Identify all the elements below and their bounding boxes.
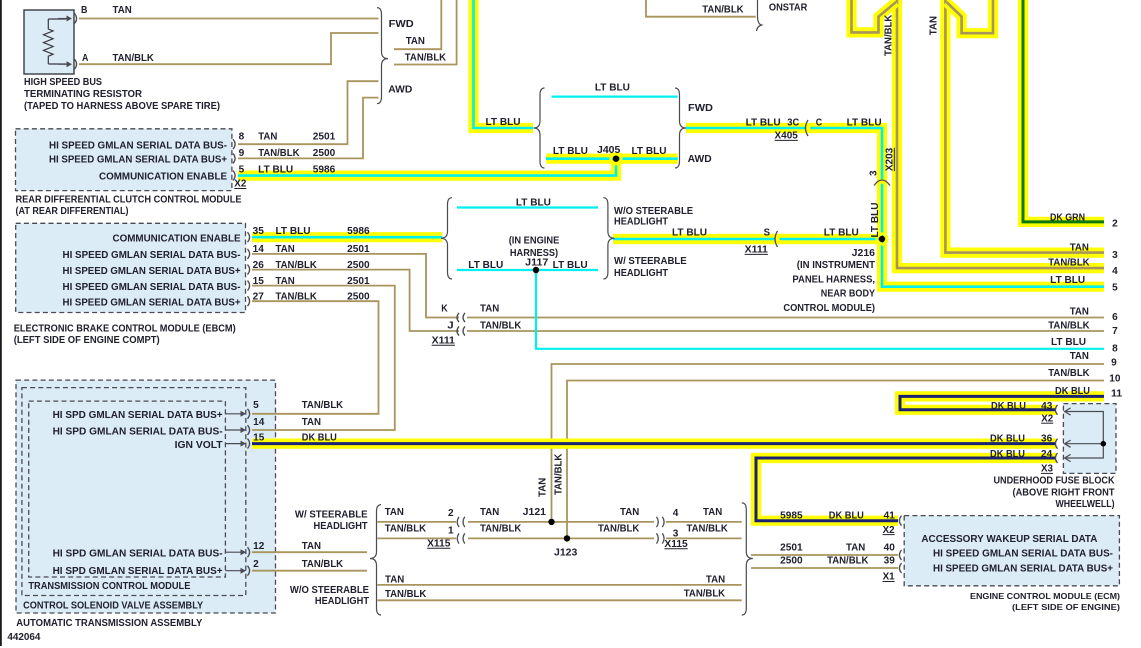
connector X203 labels [869, 170, 880, 176]
svg-text:(LEFT SIDE OF ENGINE): (LEFT SIDE OF ENGINE) [1012, 602, 1120, 612]
brace FWD/AWD top-left [377, 8, 388, 104]
highlighted LT BLU X405 bus [686, 128, 882, 239]
svg-text:2: 2 [448, 508, 454, 519]
high speed bus terminating resistor box [24, 10, 74, 74]
svg-text:41: 41 [884, 510, 896, 521]
svg-text:40: 40 [884, 543, 896, 554]
svg-text:TAN: TAN [538, 478, 549, 497]
svg-text:2501: 2501 [347, 276, 370, 287]
svg-text:3: 3 [673, 529, 679, 540]
svg-text:(LEFT SIDE OF ENGINE COMPT): (LEFT SIDE OF ENGINE COMPT) [14, 335, 160, 346]
svg-text:IGN VOLT: IGN VOLT [175, 440, 223, 451]
svg-text:11: 11 [1111, 389, 1123, 400]
svg-text:(TAPED TO HARNESS ABOVE SPARE: (TAPED TO HARNESS ABOVE SPARE TIRE) [24, 101, 220, 112]
wire ECM pin 40 TAN [751, 554, 898, 556]
wire row 7 TAN/BLK [467, 330, 1104, 332]
fuse block internal bus [1066, 412, 1103, 459]
svg-text:TAN/BLK: TAN/BLK [687, 524, 729, 535]
svg-text:(IN INSTRUMENT: (IN INSTRUMENT [797, 260, 875, 271]
automatic transmission assembly box [16, 380, 276, 613]
svg-text:DK BLU: DK BLU [990, 449, 1025, 460]
ECM pin 40 socket [899, 550, 901, 560]
svg-text:FWD: FWD [389, 19, 414, 30]
svg-text:TAN/BLK: TAN/BLK [598, 524, 640, 535]
ECM pin 39 socket [899, 563, 901, 573]
svg-text:W/ STEERABLE: W/ STEERABLE [614, 256, 687, 267]
svg-text:HI SPEED GMLAN SERIAL DATA BUS: HI SPEED GMLAN SERIAL DATA BUS+ [63, 266, 241, 277]
svg-text:4: 4 [1112, 266, 1118, 277]
svg-text:24: 24 [1041, 449, 1053, 460]
svg-text:TAN/BLK: TAN/BLK [276, 260, 318, 271]
svg-text:LT BLU: LT BLU [486, 117, 521, 128]
svg-text:TAN/BLK: TAN/BLK [1048, 258, 1090, 269]
connector X405 arc [803, 123, 813, 133]
svg-text:TAN: TAN [480, 303, 499, 314]
highlighted TAN/BLK vertical to row 4 [897, 0, 1104, 268]
wire rear diff pin 8 TAN 2501 [238, 81, 379, 144]
highlighted TAN/BLK branch jog [852, 0, 897, 32]
svg-text:TAN: TAN [846, 543, 865, 554]
wire FWD LT BLU branch [552, 95, 678, 97]
svg-text:TAN: TAN [385, 575, 404, 586]
highlighted LT BLU J216 to row 5 [882, 239, 1104, 287]
wire J117 to row 8 LT BLU [536, 270, 1104, 349]
svg-text:5: 5 [253, 400, 259, 411]
svg-text:LT BLU: LT BLU [553, 146, 588, 157]
svg-text:442064: 442064 [7, 632, 40, 643]
svg-text:UNDERHOOD FUSE BLOCK: UNDERHOOD FUSE BLOCK [994, 476, 1116, 487]
svg-text:ONSTAR: ONSTAR [769, 3, 808, 14]
resistor element [44, 19, 54, 64]
wire J121 row TAN east [468, 521, 654, 523]
svg-text:LT BLU: LT BLU [824, 227, 859, 238]
svg-text:LT BLU: LT BLU [553, 260, 588, 271]
wire resistor pin A TAN/BLK [79, 33, 379, 64]
connector X115 left arcs [457, 517, 459, 527]
highlighted DK GRN to row 2 [1023, 0, 1104, 222]
svg-text:HI SPEED GMLAN SERIAL DATA BUS: HI SPEED GMLAN SERIAL DATA BUS- [63, 282, 241, 293]
svg-text:5: 5 [1112, 282, 1118, 293]
rotated label TAN J121 vertical [538, 478, 549, 497]
junction J123 [564, 535, 570, 541]
wire J123 row TAN/BLK west [377, 537, 456, 539]
TCM pin 15 arrow [225, 443, 242, 445]
highlighted DK BLU row 11 to fuse 43 [900, 396, 1104, 409]
wire J121 row TAN west [377, 521, 456, 523]
wire FWD-AWD merged TAN/BLK to top [394, 0, 457, 65]
svg-text:A: A [82, 53, 88, 64]
svg-text:LT BLU: LT BLU [516, 197, 551, 208]
brace open steerable split [441, 198, 452, 279]
svg-text:43: 43 [1041, 401, 1053, 412]
svg-text:HI SPEED GMLAN SERIAL DATA BUS: HI SPEED GMLAN SERIAL DATA BUS- [49, 140, 227, 151]
EBCM pin 35 socket [248, 232, 250, 242]
svg-text:J216: J216 [852, 248, 876, 259]
connector X203 arc [877, 177, 887, 187]
highlighted DK BLU fuse 24 to ECM 41 [756, 458, 1056, 521]
svg-text:LT BLU: LT BLU [276, 226, 311, 237]
svg-text:W/ STEERABLE: W/ STEERABLE [295, 509, 368, 520]
svg-text:27: 27 [253, 291, 265, 302]
svg-text:8: 8 [239, 131, 245, 142]
TCM pin 12 arrow [225, 551, 242, 553]
svg-text:AWD: AWD [688, 154, 712, 165]
wire EBCM pin 15 TAN to TCM 14 [252, 286, 395, 430]
rear differential clutch control module box [16, 129, 232, 191]
svg-text:J405: J405 [597, 145, 621, 156]
svg-text:K: K [441, 303, 448, 314]
svg-text:TAN: TAN [406, 36, 425, 47]
svg-text:2501: 2501 [347, 244, 370, 255]
junction J216 [877, 234, 888, 245]
rotated label TAN/BLK top vertical [884, 14, 895, 56]
svg-text:HIGH SPEED BUS: HIGH SPEED BUS [24, 77, 102, 88]
svg-text:HEADLIGHT: HEADLIGHT [314, 521, 368, 532]
svg-text:DK BLU: DK BLU [302, 432, 337, 443]
svg-text:TAN/BLK: TAN/BLK [884, 14, 895, 56]
wire W/O steerable LT BLU branch [457, 206, 598, 208]
EBCM box [16, 223, 246, 312]
brace open bottom section [370, 505, 381, 615]
svg-text:9: 9 [1111, 358, 1117, 369]
svg-text:9: 9 [239, 148, 245, 159]
svg-text:TAN/BLK: TAN/BLK [480, 320, 522, 331]
rear diff pin 5 socket [233, 171, 235, 181]
fuse pin 43 socket [1055, 405, 1057, 415]
svg-text:S: S [764, 227, 771, 238]
svg-text:TERMINATING RESISTOR: TERMINATING RESISTOR [24, 89, 143, 100]
svg-text:5985: 5985 [780, 510, 803, 521]
ECM pin 41 socket [899, 516, 901, 526]
svg-text:TAN/BLK: TAN/BLK [554, 453, 565, 495]
svg-text:LT BLU: LT BLU [1051, 337, 1086, 348]
highlighted LT BLU X111 S segment [613, 234, 882, 244]
svg-text:14: 14 [253, 417, 265, 428]
svg-text:CONTROL SOLENOID VALVE ASSEMBL: CONTROL SOLENOID VALVE ASSEMBLY [23, 601, 203, 612]
svg-text:J121: J121 [523, 507, 547, 518]
svg-text:36: 36 [1041, 433, 1053, 444]
junction J405 [611, 153, 622, 164]
svg-text:DK BLU: DK BLU [991, 401, 1026, 412]
svg-text:TAN: TAN [1070, 306, 1089, 317]
junction J121 [548, 519, 554, 525]
svg-text:HI SPEED GMLAN SERIAL DATA BUS: HI SPEED GMLAN SERIAL DATA BUS+ [49, 155, 227, 166]
svg-text:DK BLU: DK BLU [1055, 386, 1090, 397]
svg-text:LT BLU: LT BLU [595, 82, 630, 93]
wire rear diff pin 9 TAN/BLK 2500 [238, 98, 379, 159]
svg-text:2501: 2501 [313, 131, 336, 142]
control solenoid valve assembly box [22, 388, 246, 596]
svg-text:TAN/BLK: TAN/BLK [258, 148, 300, 159]
svg-text:J: J [447, 320, 453, 331]
svg-text:B: B [81, 5, 87, 16]
svg-text:35: 35 [253, 226, 265, 237]
svg-text:2501: 2501 [780, 543, 803, 554]
svg-text:W/O STEERABLE: W/O STEERABLE [290, 585, 369, 596]
rotated label LT BLU on vertical [870, 203, 881, 238]
svg-text:REAR DIFFERENTIAL CLUTCH CONTR: REAR DIFFERENTIAL CLUTCH CONTROL MODULE [16, 195, 242, 206]
highlighted LT BLU AWD branch [546, 154, 678, 164]
svg-text:TAN: TAN [929, 16, 940, 35]
svg-text:TAN: TAN [258, 131, 277, 142]
connector X115 right arcs [657, 517, 659, 527]
svg-text:3C: 3C [787, 117, 799, 128]
svg-text:W/O STEERABLE: W/O STEERABLE [614, 206, 693, 217]
svg-text:2: 2 [1112, 219, 1118, 230]
brace close FWD/AWD [675, 88, 686, 168]
svg-text:7: 7 [1112, 326, 1118, 337]
svg-text:TAN/BLK: TAN/BLK [827, 556, 869, 567]
svg-text:AUTOMATIC TRANSMISSION ASSEMBL: AUTOMATIC TRANSMISSION ASSEMBLY [16, 618, 202, 629]
svg-text:2500: 2500 [347, 291, 370, 302]
svg-text:HI SPEED GMLAN SERIAL DATA BUS: HI SPEED GMLAN SERIAL DATA BUS+ [63, 297, 241, 308]
svg-text:LT BLU: LT BLU [672, 227, 707, 238]
svg-text:TAN: TAN [620, 507, 639, 518]
svg-text:12: 12 [253, 541, 265, 552]
brace open FWD/AWD split [534, 88, 545, 168]
svg-text:TAN: TAN [276, 276, 295, 287]
svg-text:FWD: FWD [688, 103, 713, 114]
underhood fuse block box [1063, 404, 1116, 474]
fuse block internal junction [1101, 441, 1107, 447]
rotated label TAN/BLK J123 vertical [554, 453, 565, 495]
svg-text:HI SPD GMLAN SERIAL DATA BUS+: HI SPD GMLAN SERIAL DATA BUS+ [53, 566, 223, 577]
svg-text:TAN/BLK: TAN/BLK [113, 53, 155, 64]
svg-text:TAN/BLK: TAN/BLK [684, 589, 726, 600]
brace close steerable [603, 198, 614, 279]
EBCM pin 26 socket [248, 265, 250, 275]
TCM pin 14 arrow [225, 429, 242, 431]
svg-text:3: 3 [869, 170, 880, 176]
svg-text:WHEELWELL): WHEELWELL) [1056, 499, 1115, 510]
transmission control module box [29, 401, 226, 577]
svg-text:LT BLU: LT BLU [1050, 275, 1085, 286]
svg-text:8: 8 [1112, 343, 1118, 354]
wire J123 row TAN/BLK east [468, 537, 654, 539]
svg-text:(ABOVE RIGHT FRONT: (ABOVE RIGHT FRONT [1013, 487, 1115, 498]
svg-text:TAN: TAN [302, 541, 321, 552]
highlighted DK BLU IGN VOLT to fuse 36 [252, 439, 1056, 449]
svg-text:TRANSMISSION CONTROL MODULE: TRANSMISSION CONTROL MODULE [28, 581, 190, 592]
wire ONSTAR TAN/BLK [646, 0, 756, 17]
highlighted TAN vertical to row 3 [945, 0, 1104, 253]
resistor pin B arrow [58, 18, 68, 20]
svg-text:COMMUNICATION ENABLE: COMMUNICATION ENABLE [99, 172, 227, 183]
svg-text:15: 15 [253, 432, 265, 443]
wire W/ steerable LT BLU branch J117 [457, 269, 598, 271]
wire EBCM pin 26 TAN/BLK to X111 J [252, 270, 459, 331]
svg-text:TAN/BLK: TAN/BLK [385, 524, 427, 535]
svg-text:TAN/BLK: TAN/BLK [302, 559, 344, 570]
svg-text:6: 6 [1112, 312, 1118, 323]
svg-text:HI SPD GMLAN SERIAL DATA BUS-: HI SPD GMLAN SERIAL DATA BUS- [53, 549, 223, 560]
svg-text:TAN: TAN [1070, 243, 1089, 254]
svg-text:HI SPD GMLAN SERIAL DATA BUS-: HI SPD GMLAN SERIAL DATA BUS- [53, 426, 223, 437]
wire W/O headlight TAN/BLK [377, 599, 741, 601]
svg-text:HI SPEED GMLAN SERIAL DATA BUS: HI SPEED GMLAN SERIAL DATA BUS- [933, 548, 1113, 559]
highlighted LT BLU EBCM pin 35 [252, 232, 442, 242]
connector X111 S arc [773, 234, 783, 244]
svg-text:HI SPEED GMLAN SERIAL DATA BUS: HI SPEED GMLAN SERIAL DATA BUS- [63, 250, 241, 261]
fuse pin 24 socket [1055, 453, 1057, 463]
svg-text:TAN/BLK: TAN/BLK [1048, 320, 1090, 331]
svg-text:LT BLU: LT BLU [746, 117, 781, 128]
svg-text:4: 4 [673, 508, 679, 519]
svg-text:1: 1 [448, 526, 454, 537]
svg-text:TAN/BLK: TAN/BLK [276, 291, 318, 302]
svg-text:LT BLU: LT BLU [870, 203, 881, 238]
svg-text:DK GRN: DK GRN [1050, 212, 1085, 223]
TCM pin 5 arrow [225, 413, 242, 415]
svg-text:PANEL HARNESS,: PANEL HARNESS, [792, 274, 875, 285]
wire TCM pin 2 TAN/BLK to brace [252, 570, 367, 572]
wire row 10 TAN/BLK to J123 [567, 381, 1104, 539]
svg-text:5: 5 [239, 165, 245, 176]
svg-text:ACCESSORY WAKEUP SERIAL DATA: ACCESSORY WAKEUP SERIAL DATA [921, 534, 1097, 545]
svg-text:5986: 5986 [313, 165, 336, 176]
highlighted LT BLU rear diff pin 5 to J405 [238, 159, 616, 176]
svg-text:CONTROL MODULE): CONTROL MODULE) [783, 303, 875, 314]
svg-text:DK BLU: DK BLU [829, 510, 864, 521]
svg-text:LT BLU: LT BLU [468, 260, 503, 271]
wire row 6 TAN [467, 317, 1104, 319]
svg-text:(IN ENGINE: (IN ENGINE [509, 236, 560, 247]
wire EBCM pin 14 TAN to X111 K [252, 254, 459, 318]
svg-text:TAN/BLK: TAN/BLK [480, 524, 522, 535]
highlighted LT BLU from top to FWD/AWD brace [474, 0, 534, 128]
svg-text:14: 14 [253, 244, 265, 255]
highlighted TAN branch jog [946, 0, 993, 33]
svg-text:5986: 5986 [347, 226, 370, 237]
wire EBCM pin 27 TAN/BLK to TCM 5 [252, 301, 379, 414]
svg-text:HEADLIGHT: HEADLIGHT [315, 596, 369, 607]
wire ECM pin 39 TAN/BLK [751, 567, 898, 569]
wire TCM pin 12 TAN to brace [252, 551, 367, 553]
resistor pin A arrow [58, 63, 68, 65]
svg-text:2500: 2500 [780, 556, 803, 567]
svg-text:2500: 2500 [347, 260, 370, 271]
svg-text:3: 3 [1112, 250, 1118, 261]
svg-text:TAN: TAN [480, 507, 499, 518]
svg-text:HI SPEED GMLAN SERIAL DATA BUS: HI SPEED GMLAN SERIAL DATA BUS+ [933, 564, 1113, 575]
svg-text:TAN: TAN [1070, 351, 1089, 362]
svg-text:COMMUNICATION ENABLE: COMMUNICATION ENABLE [113, 233, 241, 244]
svg-text:HI SPD GMLAN SERIAL DATA BUS+: HI SPD GMLAN SERIAL DATA BUS+ [53, 410, 223, 421]
svg-text:39: 39 [884, 556, 896, 567]
svg-text:LT BLU: LT BLU [847, 117, 882, 128]
svg-text:TAN: TAN [385, 507, 404, 518]
svg-text:26: 26 [253, 260, 265, 271]
EBCM pin 15 socket [248, 281, 250, 291]
svg-text:TAN: TAN [276, 244, 295, 255]
svg-text:15: 15 [253, 276, 265, 287]
svg-text:LT BLU: LT BLU [632, 146, 667, 157]
svg-text:TAN/BLK: TAN/BLK [702, 4, 744, 15]
connector X111 K arcs [457, 313, 459, 322]
svg-text:ENGINE CONTROL MODULE (ECM): ENGINE CONTROL MODULE (ECM) [970, 591, 1120, 601]
svg-text:TAN/BLK: TAN/BLK [1048, 368, 1090, 379]
svg-text:TAN/BLK: TAN/BLK [385, 589, 427, 600]
svg-text:TAN: TAN [706, 575, 725, 586]
svg-text:ELECTRONIC BRAKE CONTROL MODUL: ELECTRONIC BRAKE CONTROL MODULE (EBCM) [14, 323, 236, 334]
brace close bottom section [742, 503, 753, 615]
brace ONSTAR fragment [757, 0, 762, 31]
EBCM pin 14 socket [248, 249, 250, 259]
wire resistor pin B TAN [79, 18, 379, 20]
rear diff pin 8 socket [233, 139, 235, 149]
svg-text:TAN/BLK: TAN/BLK [405, 52, 447, 63]
rear diff pin 9 socket [233, 153, 235, 163]
rotated label TAN top vertical [929, 16, 940, 35]
svg-text:AWD: AWD [388, 85, 412, 96]
svg-text:2500: 2500 [313, 148, 336, 159]
svg-text:2: 2 [253, 559, 259, 570]
junction J117 [533, 267, 539, 273]
TCM pin 2 arrow [225, 570, 242, 572]
svg-text:10: 10 [1109, 373, 1121, 384]
svg-text:(AT REAR DIFFERENTIAL): (AT REAR DIFFERENTIAL) [16, 206, 129, 217]
svg-text:C: C [816, 117, 822, 128]
fuse pin 36 socket [1055, 439, 1057, 449]
svg-text:DK BLU: DK BLU [990, 433, 1025, 444]
svg-text:TAN: TAN [113, 5, 132, 16]
svg-text:J117: J117 [525, 257, 549, 268]
svg-text:HEADLIGHT: HEADLIGHT [614, 268, 668, 279]
wire FWD-AWD merged TAN to top [394, 0, 441, 49]
svg-text:TAN/BLK: TAN/BLK [302, 400, 344, 411]
svg-text:LT BLU: LT BLU [258, 165, 293, 176]
page left border [0, 0, 2, 646]
svg-text:NEAR BODY: NEAR BODY [821, 289, 875, 300]
svg-text:TAN: TAN [302, 417, 321, 428]
svg-text:J123: J123 [554, 548, 578, 559]
svg-text:TAN: TAN [703, 507, 722, 518]
wire row 9 TAN to J121 [552, 364, 1105, 522]
svg-text:HEADLIGHT: HEADLIGHT [614, 216, 668, 227]
ECM box [904, 516, 1119, 586]
wire W/O headlight TAN [377, 584, 741, 586]
connector X111 J arcs [457, 326, 459, 335]
EBCM pin 27 socket [248, 296, 250, 306]
